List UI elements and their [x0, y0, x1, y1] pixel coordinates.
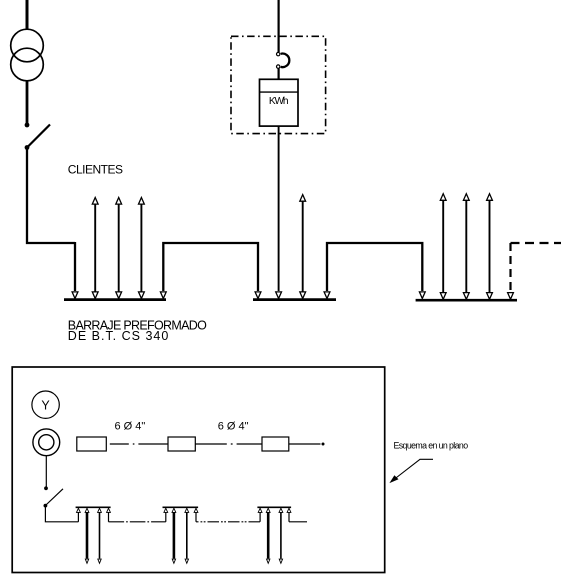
conduit run rect 3: [262, 437, 289, 451]
wire: switch down and over to busbar 1: [27, 148, 75, 244]
distribution group 3 header bar: [257, 506, 291, 508]
bus tail after group 3: [289, 521, 307, 523]
conduit tail end dot: [322, 443, 325, 446]
distribution group 2 header bar: [163, 506, 199, 508]
arrowhead down from meter onto B2: [276, 292, 282, 299]
bus centerline group2-group3: [196, 521, 260, 523]
arrowhead down onto B2 left end: [255, 292, 261, 299]
svg-text:DE B.T. CS 340: DE B.T. CS 340: [68, 329, 169, 343]
switch S1 blade (open): [27, 125, 50, 148]
busbar B3: [416, 299, 517, 302]
conduit centerline 2-3: [195, 443, 262, 445]
meter terminal cover line: [260, 91, 299, 93]
group 1 feeder arrow 1: [85, 508, 89, 563]
group 2 feeder arrow 2: [185, 508, 189, 563]
wire: dashed future extension drop: [509, 243, 511, 291]
wire: meter drop to busbar 2: [278, 126, 280, 291]
client arrow on B2: [300, 195, 306, 299]
wire: double circle to switch: [45, 456, 47, 487]
group 2 left stub with arrowhead: [164, 508, 168, 522]
svg-text:6 Ø 4": 6 Ø 4": [218, 421, 249, 433]
client arrow 2 on B3: [463, 194, 469, 300]
conduit run rect 1: [77, 437, 107, 451]
client arrow 3 on B3: [487, 194, 493, 300]
group 3 feeder arrow 2: [279, 508, 283, 563]
distribution group 1 header bar: [76, 506, 111, 508]
instrument double circle: [33, 429, 60, 456]
group 3 feeder arrow 1: [266, 508, 270, 563]
client arrow 3 on B1: [139, 198, 145, 299]
busbar B1: [64, 298, 166, 301]
client arrow 2 on B1: [116, 198, 122, 299]
leader line to frame: [392, 459, 433, 481]
wye symbol circle: [32, 391, 59, 418]
group 1 left stub with arrowhead: [77, 508, 81, 522]
group 2 feeder arrow 1: [172, 508, 176, 563]
arrowhead down onto B3 left end: [419, 292, 425, 299]
bus centerline group1-group2: [109, 521, 166, 523]
node: switch upper contact: [25, 123, 30, 128]
meter enclosure (dash-dot box): [231, 36, 326, 133]
svg-text:6 Ø 4": 6 Ø 4": [115, 421, 146, 433]
detail drawing frame: [12, 367, 385, 573]
fuse cutout arc: [281, 54, 290, 68]
transformer T1: [11, 29, 44, 81]
arrowhead down dashed drop onto B3: [508, 293, 514, 300]
node: switch lower contact: [25, 145, 30, 150]
group 1 feeder arrow 2: [98, 508, 102, 563]
arrowhead down onto busbar 1: [72, 292, 78, 299]
meter M1 (KWh) body: [260, 79, 299, 126]
client arrow 1 on B1: [92, 198, 98, 299]
group 1 right stub with arrowhead: [107, 508, 111, 522]
conduit run rect 2: [168, 437, 195, 451]
client arrow 1 on B3: [440, 194, 446, 300]
wire: switch to distribution bus: [45, 506, 78, 522]
node: detail switch upper contact: [44, 486, 48, 490]
svg-text:Y: Y: [41, 399, 50, 413]
group 3 left stub with arrowhead: [258, 508, 262, 522]
svg-text:KWh: KWh: [269, 96, 289, 107]
arrowhead down onto B1 right end: [160, 292, 166, 299]
wire: service drop into meter: [278, 0, 280, 52]
busbar B2: [253, 298, 336, 301]
detail switch blade (open): [45, 489, 63, 506]
group 3 right stub with arrowhead: [287, 508, 291, 522]
leader filled arrowhead: [389, 475, 398, 483]
wire: fuse to meter: [278, 68, 280, 79]
node: detail switch lower contact: [44, 504, 48, 508]
wire: dashed future extension horizontal: [511, 242, 562, 244]
fuse cutout lower terminal: [277, 65, 280, 68]
conduit centerline 1-2: [106, 443, 168, 445]
wire: transformer to switch: [26, 81, 29, 124]
wire: jumper busbar2 to busbar3: [327, 243, 422, 291]
fuse cutout upper terminal: [277, 52, 280, 55]
arrowhead down onto B2 right end: [324, 292, 330, 299]
group 2 right stub with arrowhead: [194, 508, 198, 522]
wire: drop to busbar 1: [74, 242, 76, 291]
svg-text:Esquema en un plano: Esquema en un plano: [394, 440, 469, 450]
wire: jumper busbar1 to busbar2: [163, 243, 258, 291]
svg-text:CLIENTES: CLIENTES: [68, 163, 123, 177]
wire: incoming MT supply drop: [26, 0, 29, 30]
conduit tail line: [289, 443, 321, 445]
